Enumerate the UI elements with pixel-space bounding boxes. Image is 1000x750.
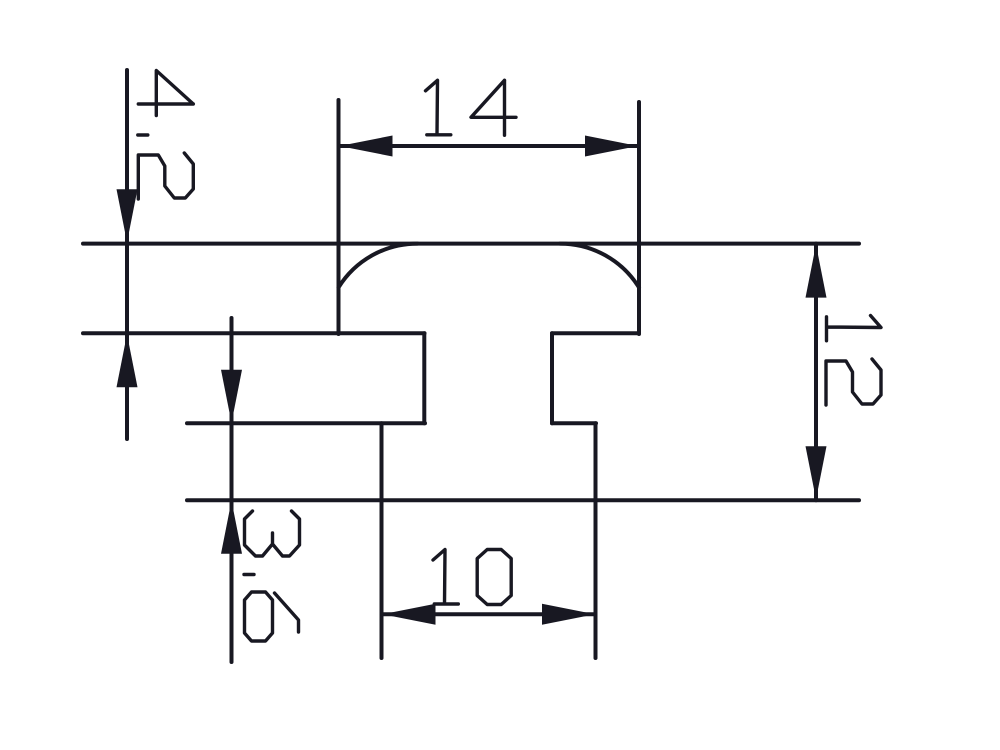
profile base left side + extension line for dim 10 bbox=[380, 423, 384, 658]
dimension line 4.2 (vertical, left) bbox=[125, 70, 129, 439]
profile left step line (extended left as extension line for 3.6) bbox=[187, 421, 425, 425]
profile cap bottom shoulder line (extended left as extension line for 4.2) bbox=[83, 331, 425, 335]
profile base right side + extension line for dim 10 bbox=[594, 423, 598, 658]
profile bottom surface line (extended both sides for 3.6 and 12) bbox=[187, 498, 859, 502]
dimension text 10 bbox=[433, 550, 511, 605]
arrowhead dim 12 top (points up to top line) bbox=[806, 245, 827, 298]
arrowhead dim 14 right bbox=[585, 136, 638, 157]
profile neck right side bbox=[550, 333, 554, 423]
arrowhead dim 4.2 upper (points down to top line) bbox=[117, 189, 138, 242]
profile cap top-left corner arc bbox=[339, 244, 418, 288]
arrowhead dim 12 bottom (points down to bottom line) bbox=[806, 446, 827, 499]
profile cap right side + extension line for dim 14 bbox=[637, 102, 641, 334]
dimension text 14 bbox=[426, 80, 517, 135]
profile cap top-right corner arc bbox=[560, 244, 639, 288]
profile cap left side + extension line for dim 14 bbox=[337, 100, 341, 334]
arrowhead dim 3.6 lower (points up to bottom line) bbox=[221, 501, 242, 554]
arrowhead dim 10 right bbox=[542, 604, 595, 625]
arrowhead dim 10 left bbox=[383, 604, 436, 625]
arrowhead dim 4.2 lower (points up to shoulder line) bbox=[117, 334, 138, 387]
profile cap bottom right edge bbox=[552, 331, 639, 335]
dimension line 12 (vertical, right) bbox=[814, 244, 818, 501]
profile neck left side bbox=[422, 333, 426, 423]
profile top surface line (extended both sides as extension line for 4.2 and 12) bbox=[83, 242, 859, 246]
dimension line 10 (horizontal, bottom) bbox=[382, 612, 595, 616]
dimension line 3.6 (vertical, left lower) bbox=[230, 318, 234, 662]
dimension text 3.6 (rotated) bbox=[244, 511, 300, 641]
dimension line 14 (horizontal, top) bbox=[339, 144, 639, 148]
arrowhead dim 3.6 upper (points down to step line) bbox=[221, 370, 242, 423]
dimension text 12 (rotated) bbox=[826, 316, 881, 406]
profile right step line bbox=[552, 421, 596, 425]
arrowhead dim 14 left bbox=[340, 136, 393, 157]
dimension text 4.2 (rotated) bbox=[138, 71, 194, 200]
